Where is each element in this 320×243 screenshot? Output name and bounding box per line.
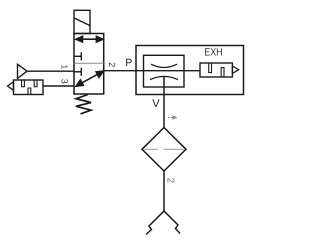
return spring [76,95,91,114]
supply triangle [18,64,28,78]
svg-text:V: V [152,98,160,110]
wire: V port down from relief valve [163,77,165,128]
filter (diamond) [142,128,186,172]
svg-text:2: 2 [107,62,117,67]
silencer (port 3 exhaust) [14,80,44,95]
EXH silencer [200,63,232,77]
svg-text:3: 3 [59,79,69,84]
blocked port symbol (top chamber) [74,52,81,60]
manual actuator box [74,10,90,33]
blocked port symbol (bottom chamber) [74,68,81,76]
svg-text:P: P [125,57,132,69]
valve body (3/2 valve) [74,34,104,95]
flow path arrow (top chamber, double headed) [76,36,103,42]
valve chamber divider [74,62,104,64]
wire: P line through relief valve [144,70,201,72]
wire: filter down to branch [163,171,165,211]
wire: port 2 to P port [104,70,144,72]
svg-text:EXH: EXH [204,47,222,59]
flow path arrow (bottom chamber, diagonal double headed) [76,71,103,86]
wire: silencer to port 3 [43,85,74,87]
filter element (gray line) [143,148,185,150]
diaphragm arc upper [151,64,177,67]
svg-text:1: 1 [60,64,70,69]
EXH exhaust triangle [232,66,238,73]
wire: branch right with break symbol [164,211,180,234]
exhaust triangle (left of silencer) [8,82,14,91]
diaphragm arc lower [150,76,178,79]
lockout valve enclosure [136,46,244,95]
svg-text:2: 2 [164,178,175,184]
relief valve inner box [144,55,185,87]
flow direction arrow (gray) [168,116,177,119]
wire: supply to port 1 [27,70,74,72]
wire: branch left with break symbol [146,211,164,235]
